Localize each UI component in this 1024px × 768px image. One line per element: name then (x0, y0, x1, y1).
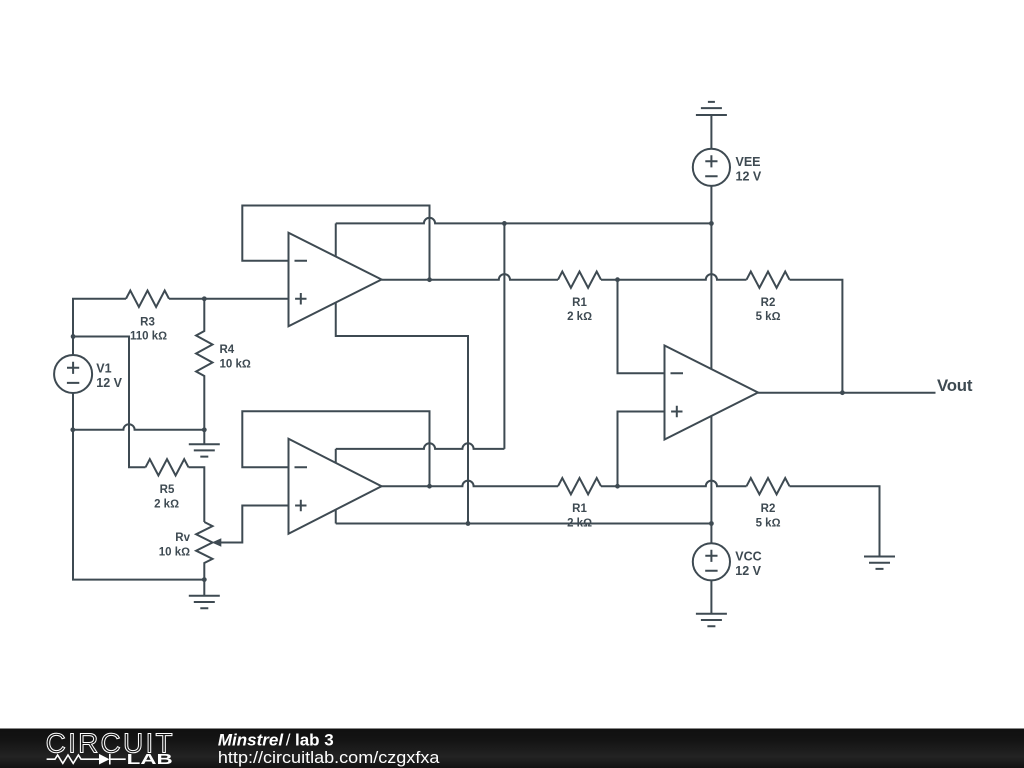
ground right (864, 557, 895, 569)
svg-text:V1: V1 (96, 362, 111, 376)
resistor R2 (top) (747, 272, 790, 288)
resistor R4 (196, 299, 212, 430)
wire R2 top to U3 output node (790, 280, 843, 393)
voltage source VCC (693, 543, 730, 580)
wire VCC node to VCC source (710, 524, 712, 544)
wire U1 output lead (382, 279, 430, 281)
wire row A: R1 to R2 (hop over x711.4) (601, 274, 747, 280)
svg-text:R4: R4 (220, 344, 235, 356)
wire U2 feedback (output to minus input) (242, 411, 429, 486)
wire U2 output lead (382, 485, 430, 487)
svg-text:110 kΩ: 110 kΩ (130, 331, 167, 343)
op-amp U3 (665, 346, 759, 440)
svg-text:/: / (286, 730, 291, 749)
wire V1 top to R3 (73, 299, 126, 355)
label R2 bottom value (756, 503, 781, 529)
label V1 value (96, 362, 122, 391)
potentiometer Rv (196, 522, 212, 580)
wire node B to U3 plus input (618, 412, 665, 487)
svg-text:R1: R1 (572, 503, 587, 515)
footer title Minstrel / lab 3 (218, 730, 334, 749)
resistor R1 (bottom) (558, 478, 601, 494)
wire VEE column riser x504.4 (503, 223, 505, 449)
node VEE riser junction (502, 221, 507, 226)
svg-text:R1: R1 (572, 297, 587, 309)
svg-text:LAB: LAB (127, 751, 173, 768)
svg-text:2 kΩ: 2 kΩ (567, 311, 592, 323)
wire row A: U1 output to R1 (hop over x504.4) (430, 274, 559, 280)
wire R5 to Rv (189, 467, 205, 522)
logo resistor-diode doodle (47, 754, 126, 765)
wire row B: R1 to R2 (hop over x711.4) (601, 481, 747, 487)
node Vout junction (840, 390, 845, 395)
node V1 bottom junction (70, 427, 75, 432)
wire V1 row to R4 bottom (hop over x129) (73, 424, 205, 430)
resistor R1 (top) (558, 272, 601, 288)
ground below VCC (696, 580, 727, 626)
wire node A to U3 minus input (618, 280, 665, 374)
node U1 output junction (427, 277, 432, 282)
svg-text:Vout: Vout (937, 376, 973, 395)
svg-text:R2: R2 (761, 297, 776, 309)
svg-text:10 kΩ: 10 kΩ (159, 546, 190, 558)
svg-text:VEE: VEE (736, 155, 761, 169)
resistor R3 (126, 291, 169, 307)
label R1 bottom value (567, 503, 592, 529)
label VCC value (735, 549, 761, 578)
voltage source VEE (693, 149, 730, 186)
svg-text:12 V: 12 V (735, 564, 761, 578)
wire U1 bottom power pin (336, 302, 468, 523)
node B junction (615, 484, 620, 489)
svg-text:lab 3: lab 3 (295, 730, 334, 749)
wire U2 top power row (hops over x429.5 and x468) (336, 443, 505, 449)
node VEE junction (709, 221, 714, 226)
label R3 value (130, 317, 167, 343)
node U2 output junction (427, 484, 432, 489)
wire V1 branch to R5 column (73, 337, 145, 468)
ground top (VEE) (696, 102, 727, 149)
node VCC junction (709, 521, 714, 526)
wire U1 feedback (output to minus input) (242, 206, 429, 280)
label R2 top value (756, 297, 781, 323)
voltage source V1 (54, 355, 92, 393)
wire U1 top power pin (335, 223, 337, 256)
node A junction (615, 277, 620, 282)
svg-text:5 kΩ: 5 kΩ (756, 518, 781, 530)
label Rv value (159, 532, 191, 558)
node R3/R4 junction (202, 296, 207, 301)
wire VEE node to U3 top power pin (710, 223, 712, 369)
svg-text:2 kΩ: 2 kΩ (567, 518, 592, 530)
wire R3 to op-amp U1 plus input (169, 298, 289, 300)
node VCC riser junction (466, 521, 471, 526)
wire U3 output to Vout (758, 392, 936, 394)
potentiometer Rv wiper arrow (212, 506, 289, 547)
label VEE value (736, 155, 762, 184)
svg-text:Minstrel: Minstrel (218, 730, 284, 749)
svg-text:10 kΩ: 10 kΩ (220, 358, 251, 370)
resistor R2 (bottom) (747, 478, 790, 494)
op-amp U2 (289, 439, 382, 534)
wire U3 bottom power pin to VCC node (710, 416, 712, 524)
wire VEE power row (hop over x429.5) (336, 218, 712, 224)
node V1 branch junction (71, 334, 76, 339)
label R1 top value (567, 297, 592, 323)
ground below Rv (189, 580, 220, 609)
wire VEE to power row (710, 186, 712, 224)
wire U2 top power pin (335, 449, 337, 463)
svg-text:R5: R5 (160, 484, 175, 496)
svg-text:12 V: 12 V (96, 376, 122, 390)
wire row B: U2 output to R1 (hop over x468) (430, 481, 559, 487)
node R4 bottom junction (202, 427, 207, 432)
wire VCC power row (336, 523, 712, 525)
node Rv bottom junction (202, 577, 207, 582)
wire R2 bottom to ground (790, 486, 880, 556)
svg-text:2 kΩ: 2 kΩ (154, 499, 179, 511)
label R4 value (220, 344, 251, 370)
label R5 value (154, 484, 179, 511)
svg-text:Rv: Rv (175, 532, 190, 544)
svg-text:R3: R3 (140, 317, 155, 329)
ground below R4 (189, 430, 220, 457)
resistor R5 (146, 459, 189, 475)
svg-text:http://circuitlab.com/czgxfxa: http://circuitlab.com/czgxfxa (218, 748, 440, 767)
wire U2 bottom power pin (335, 509, 337, 523)
svg-text:VCC: VCC (735, 549, 761, 563)
svg-text:5 kΩ: 5 kΩ (756, 311, 781, 323)
svg-text:R2: R2 (761, 503, 776, 515)
svg-text:12 V: 12 V (736, 169, 762, 183)
op-amp U1 (289, 233, 382, 327)
wire V1 bottom left rail (73, 393, 204, 580)
